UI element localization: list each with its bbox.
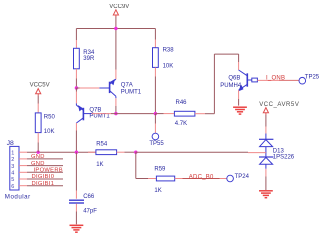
svg-text:J8: J8 [7,140,14,147]
svg-text:R50: R50 [44,114,56,120]
svg-text:47pF: 47pF [83,208,97,214]
svg-text:10K: 10K [44,129,55,135]
svg-text:TP24: TP24 [235,174,250,180]
svg-text:DIGIBI1: DIGIBI1 [32,181,55,187]
svg-text:2: 2 [11,157,14,163]
svg-text:PUMT1: PUMT1 [121,90,142,96]
svg-text:3: 3 [11,164,14,170]
svg-text:R46: R46 [176,100,188,106]
svg-text:VCC9V: VCC9V [109,4,129,10]
svg-text:R59: R59 [154,166,166,172]
svg-text:DIGIBI0: DIGIBI0 [32,174,55,180]
svg-text:Q7A: Q7A [121,82,133,88]
svg-text:Modular: Modular [5,194,31,201]
svg-text:GND: GND [31,161,45,167]
svg-text:VCC_AVR5V: VCC_AVR5V [259,102,299,108]
svg-text:5: 5 [11,177,14,183]
svg-text:R54: R54 [96,141,108,147]
svg-text:4.7K: 4.7K [175,121,187,127]
svg-text:6: 6 [11,184,14,190]
svg-text:10K: 10K [163,63,174,69]
svg-text:4: 4 [11,171,14,177]
svg-text:TP25: TP25 [305,74,320,80]
svg-text:TP55: TP55 [149,141,164,147]
svg-text:I_ONB: I_ONB [266,75,285,81]
svg-text:1: 1 [11,150,14,156]
svg-text:PUMH4: PUMH4 [220,83,242,89]
svg-text:IPOWERB: IPOWERB [34,168,63,174]
svg-text:Q6B: Q6B [228,76,240,82]
svg-text:R38: R38 [163,47,175,53]
svg-text:1K: 1K [154,188,161,194]
svg-text:VCC5V: VCC5V [30,83,50,89]
svg-text:1PS226: 1PS226 [273,155,295,161]
svg-text:D13: D13 [273,148,285,154]
svg-text:ADC_B0: ADC_B0 [189,174,214,180]
svg-text:Q7B: Q7B [89,108,101,114]
svg-text:39R: 39R [83,56,95,62]
svg-text:GND: GND [31,154,45,160]
svg-text:C66: C66 [83,194,95,200]
svg-text:PUMT1: PUMT1 [89,114,110,120]
svg-text:1K: 1K [96,162,103,168]
